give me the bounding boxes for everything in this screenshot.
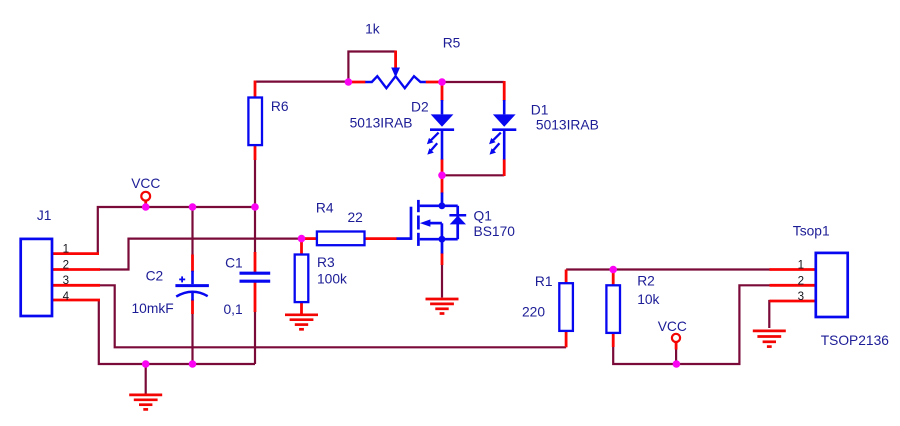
pin stub C1 top bbox=[254, 252, 257, 272]
svg-text:2: 2 bbox=[63, 258, 69, 271]
pin stub R2 bottom bbox=[612, 333, 615, 347]
capacitor C2 electrolytic bbox=[175, 271, 209, 301]
svg-text:100k: 100k bbox=[317, 272, 347, 287]
pin stub D1 top bbox=[503, 81, 506, 101]
svg-text:22: 22 bbox=[348, 210, 363, 225]
resistor R6 bbox=[248, 98, 262, 146]
svg-text:R3: R3 bbox=[317, 255, 335, 270]
potentiometer R5 zigzag bbox=[365, 76, 426, 88]
ground left (J1/C2 rail) bbox=[129, 395, 162, 410]
svg-text:J1: J1 bbox=[37, 208, 52, 223]
VCC symbol right bbox=[672, 334, 680, 342]
node VCC left junction bbox=[142, 203, 150, 211]
wire J1 pin1 to VCC rail bbox=[98, 207, 255, 254]
pin stub J1 pin2 bbox=[52, 268, 100, 271]
node D2/D1 bottom junction bbox=[438, 172, 446, 180]
LED D2 bbox=[427, 100, 454, 160]
wire TSOP pin1 rail to R1 top bbox=[566, 268, 770, 270]
capacitor C1 bbox=[240, 273, 271, 281]
pin stub D1 bottom bbox=[503, 159, 506, 176]
wire R5 right node to D1 top bbox=[442, 81, 504, 83]
wire R2 bottom to VCC rail to TSOP pin2 bbox=[613, 285, 770, 364]
svg-text:Q1: Q1 bbox=[474, 209, 492, 224]
pin stub VCC right bbox=[675, 342, 678, 350]
VCC symbol left bbox=[141, 192, 150, 201]
svg-text:C1: C1 bbox=[225, 255, 243, 270]
svg-text:10k: 10k bbox=[637, 292, 659, 307]
svg-text:TSOP2136: TSOP2136 bbox=[821, 333, 890, 348]
svg-text:Tsop1: Tsop1 bbox=[793, 224, 830, 239]
wire J1 pin4 to ground rail bbox=[99, 300, 255, 364]
pin stub J1 pin4 bbox=[52, 299, 100, 302]
pin stub VCC left bbox=[144, 201, 147, 206]
resistor R4 bbox=[317, 232, 365, 246]
pin stub R5 wiper bbox=[394, 51, 397, 68]
svg-text:R4: R4 bbox=[316, 201, 334, 216]
pin stub R2 top bbox=[612, 270, 615, 286]
wire D2 bottom to D1 bottom bbox=[442, 174, 504, 176]
LED D1 bbox=[489, 100, 516, 160]
pin stub R4 left bbox=[302, 237, 317, 240]
svg-text:D2: D2 bbox=[411, 100, 429, 115]
node ground rail left junction bbox=[142, 360, 150, 368]
wire C1 bottom lead lower bbox=[254, 311, 256, 364]
wire C1 top lead upper bbox=[254, 207, 256, 253]
svg-text:BS170: BS170 bbox=[474, 224, 516, 239]
RED_STUBS bbox=[52, 51, 816, 350]
wire R6 bottom to rail junction bbox=[254, 160, 256, 208]
ground TSOP pin3 bbox=[753, 331, 786, 347]
node R4/R3 gate junction bbox=[298, 235, 306, 243]
pin stub R3 bottom bbox=[300, 302, 303, 314]
potentiometer R5 wiper arrow bbox=[391, 68, 400, 78]
pin stub C1 bottom bbox=[254, 283, 257, 313]
svg-text:C2: C2 bbox=[146, 268, 164, 283]
svg-text:10mkF: 10mkF bbox=[132, 301, 174, 316]
transistor Q1 MOSFET BS170 bbox=[397, 193, 467, 254]
svg-text:5013IRAB: 5013IRAB bbox=[536, 118, 599, 133]
wire VCC right stub lower bbox=[675, 349, 677, 364]
GROUNDS bbox=[129, 299, 786, 409]
resistor R3 bbox=[295, 255, 309, 303]
svg-text:4: 4 bbox=[63, 290, 70, 303]
svg-text:5013IRAB: 5013IRAB bbox=[350, 116, 413, 131]
pin stub C2 bottom bbox=[191, 300, 194, 315]
ground Q1 source bbox=[426, 299, 459, 314]
pin stub R1 top bbox=[565, 270, 568, 284]
BLUE_PARTS bbox=[21, 68, 848, 333]
node R5 right / D2 junction bbox=[438, 78, 446, 86]
wire C2 top lead upper bbox=[191, 207, 193, 255]
svg-text:1: 1 bbox=[798, 259, 804, 272]
wire J1 pin3 to R1 bottom bbox=[99, 285, 566, 347]
WIRES_MAROON bbox=[98, 52, 771, 395]
pin stub D2 bottom bbox=[441, 159, 444, 176]
pin stub R6 bottom bbox=[254, 145, 257, 160]
wire Q1 source to ground bbox=[441, 264, 443, 298]
svg-text:3: 3 bbox=[63, 274, 69, 287]
svg-text:1: 1 bbox=[63, 242, 69, 255]
node C2 top junction bbox=[189, 203, 197, 211]
node R2 top junction bbox=[609, 266, 617, 274]
wire R5 wiper loop bbox=[348, 52, 395, 83]
pin stub C2 top bbox=[191, 255, 194, 272]
pin stub J1 pin1 bbox=[52, 252, 99, 255]
pin stub Q1 drain bbox=[441, 175, 444, 193]
ground R3 bbox=[285, 315, 318, 330]
svg-text:2: 2 bbox=[798, 274, 804, 287]
pin stub R6 top bbox=[254, 81, 257, 98]
connector J1 bbox=[21, 239, 52, 316]
pin stub J1 pin3 bbox=[52, 284, 100, 287]
wire C2 bottom lead lower bbox=[191, 313, 193, 364]
pin stub TSOP pin2 bbox=[770, 284, 816, 287]
pin stub TSOP pin3 bbox=[770, 300, 816, 303]
svg-text:R6: R6 bbox=[271, 99, 289, 114]
svg-text:3: 3 bbox=[798, 290, 804, 303]
svg-text:R2: R2 bbox=[637, 274, 655, 289]
pin stub Q1 source bbox=[441, 253, 444, 265]
node VCC right junction bbox=[673, 360, 681, 368]
wire TSOP pin3 to ground bbox=[769, 301, 770, 328]
pin stub R5 right bbox=[426, 81, 442, 84]
svg-text:1k: 1k bbox=[365, 22, 380, 37]
node C2 bottom junction bbox=[189, 360, 197, 368]
VCC_SYMBOLS bbox=[141, 192, 680, 342]
pin stub R4 right to gate bbox=[365, 237, 397, 240]
pin stub R1 bottom bbox=[565, 331, 568, 347]
IC Tsop1 box bbox=[816, 253, 848, 317]
pin stub R3 top bbox=[300, 239, 303, 255]
pin stub R5 left bbox=[348, 81, 365, 84]
wire ground stem left bbox=[145, 364, 147, 395]
node R5 left junction bbox=[345, 78, 353, 86]
svg-text:R1: R1 bbox=[535, 274, 553, 289]
svg-text:0,1: 0,1 bbox=[224, 302, 243, 317]
pin stub TSOP pin1 bbox=[770, 268, 816, 271]
node R6/C1 junction bbox=[251, 203, 259, 211]
svg-text:VCC: VCC bbox=[658, 319, 687, 334]
svg-text:VCC: VCC bbox=[131, 176, 160, 191]
svg-text:D1: D1 bbox=[531, 103, 549, 118]
svg-text:R5: R5 bbox=[443, 36, 461, 51]
wire R6 top to R5 left node bbox=[255, 80, 348, 82]
resistor R2 bbox=[606, 285, 620, 333]
resistor R1 bbox=[559, 283, 573, 331]
wire J1 pin2 to gate rail bbox=[99, 239, 303, 270]
pin stub D2 top bbox=[441, 82, 444, 101]
svg-text:220: 220 bbox=[522, 305, 545, 320]
